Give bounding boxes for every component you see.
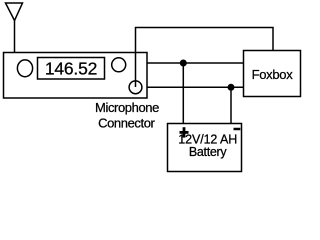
svg-text:146.52: 146.52: [45, 59, 97, 79]
wire lower dot to battery negative: [230, 87, 232, 123]
frequency display bezel: [38, 58, 105, 80]
wire upper dot to battery positive: [182, 63, 184, 124]
battery minus terminal: [234, 128, 241, 131]
antenna A1: [6, 3, 23, 21]
wire antenna lead: [14, 21, 16, 53]
knob right (tuning): [112, 58, 126, 72]
svg-text:Connector: Connector: [98, 115, 155, 130]
Foxbox box: [244, 51, 301, 97]
battery box: [168, 124, 242, 172]
junction node lower: [228, 84, 235, 91]
wire mic connector to Foxbox (up over top): [136, 28, 274, 88]
microphone connector jack: [129, 81, 142, 94]
wire upper radio to Foxbox: [147, 62, 244, 64]
svg-text:Foxbox: Foxbox: [252, 67, 294, 82]
svg-text:Battery: Battery: [189, 145, 228, 159]
knob left (volume): [17, 60, 32, 77]
battery plus terminal: [180, 127, 189, 137]
junction node upper: [180, 60, 187, 67]
svg-text:Microphone: Microphone: [95, 100, 159, 115]
radio transceiver box: [4, 53, 148, 99]
wire lower radio to Foxbox: [147, 86, 244, 88]
